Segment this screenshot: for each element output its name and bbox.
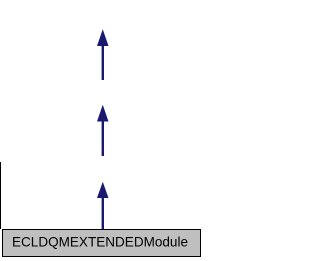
class box ECLDQMEXTENDEDModule — [3, 230, 201, 257]
svg-text:ECLDQMEXTENDEDModule: ECLDQMEXTENDEDModule — [12, 234, 188, 250]
wire: clipped box edge at left border — [0, 162, 1, 229]
inheritance graph: ECLDQMEXTENDEDModule doxygen diagram — [0, 0, 205, 261]
node B: inheritance arrow 2 (middle) head — [97, 105, 109, 122]
wire: arrow 1 shaft — [102, 45, 104, 80]
node C: inheritance arrow 3 (bottom) head — [97, 182, 109, 198]
wire: arrow 2 shaft — [102, 121, 104, 157]
wire: arrow 3 shaft — [102, 197, 104, 230]
node A: inheritance arrow 1 (top) head — [97, 29, 109, 46]
